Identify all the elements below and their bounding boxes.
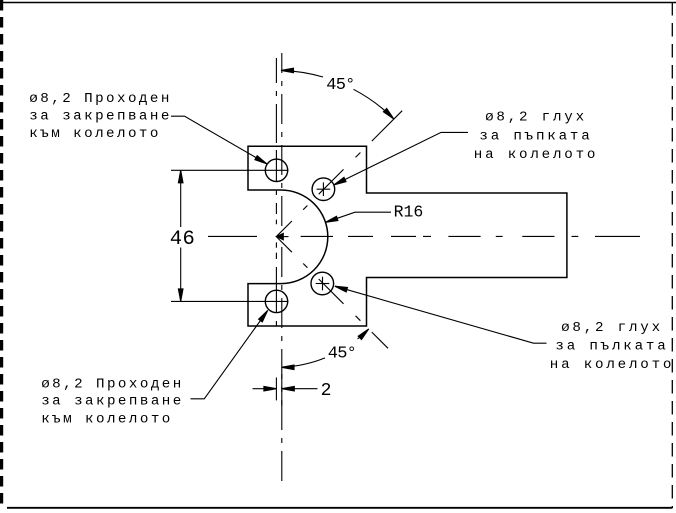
svg-text:45°: 45° bbox=[326, 76, 354, 95]
angular dim top arrow at ray bbox=[383, 109, 394, 120]
frame top border bbox=[0, 2, 676, 4]
svg-text:ø8,2 глух: ø8,2 глух bbox=[561, 320, 663, 336]
blind hole bottom-right center cross bbox=[316, 277, 330, 291]
dimension 46 arrow down bbox=[178, 289, 183, 302]
dimension 2 arrow pointing right bbox=[264, 386, 277, 391]
blind hole bottom-right bbox=[311, 272, 334, 295]
svg-text:R16: R16 bbox=[394, 202, 424, 221]
svg-text:ø8,2 глух: ø8,2 глух bbox=[485, 110, 587, 126]
vertical part centerline solid at dim 2 bbox=[281, 374, 283, 406]
leader top-right arrowhead bbox=[334, 177, 346, 185]
leader top-right hole bbox=[334, 132, 468, 185]
R16 leader arrow bbox=[325, 216, 338, 222]
leader bottom-right arrowhead bbox=[335, 286, 348, 292]
vertical hole-axis extension at dim 2 bbox=[275, 378, 277, 401]
svg-text:за закрепване: за закрепване bbox=[41, 393, 184, 409]
horizontal centerline bbox=[208, 235, 640, 237]
blind hole top-right bbox=[312, 178, 335, 201]
svg-text:на колелото: на колелото bbox=[474, 147, 598, 163]
vertical part centerline bbox=[281, 53, 283, 486]
part outline with R16 notch and right tab bbox=[248, 146, 567, 326]
svg-text:ø8,2 Проходен: ø8,2 Проходен bbox=[29, 91, 172, 107]
leader bottom-right hole bbox=[335, 286, 547, 343]
svg-text:за пълката: за пълката bbox=[555, 339, 668, 355]
leader bottom-left arrowhead bbox=[259, 310, 268, 322]
svg-text:към колелото: към колелото bbox=[41, 411, 173, 427]
45-degree dash-dot ray up-right through blind hole bbox=[277, 111, 403, 237]
leader bottom-left hole bbox=[191, 310, 268, 398]
svg-text:за пъпката: за пъпката bbox=[479, 129, 592, 145]
dimension 46 line upper segment bbox=[180, 170, 182, 227]
svg-text:2: 2 bbox=[321, 381, 332, 401]
leader top-left hole bbox=[171, 116, 267, 164]
top-left hole horizontal centerline / dim 46 extension bbox=[171, 169, 289, 171]
45-degree dash-dot ray down-right through blind hole bbox=[277, 237, 388, 348]
angular dimension arc bottom bbox=[282, 329, 369, 367]
through hole top-left bbox=[265, 159, 287, 181]
svg-text:ø8,2 Проходен: ø8,2 Проходен bbox=[41, 377, 184, 393]
leader top-left arrowhead bbox=[255, 156, 267, 164]
frame right dashed border bbox=[671, 2, 673, 508]
bottom-left hole horizontal centerline / dim 46 extension bbox=[171, 300, 289, 302]
svg-text:на колелото: на колелото bbox=[550, 357, 674, 373]
dimension 2 left tail line bbox=[253, 388, 265, 390]
svg-text:към колелото: към колелото bbox=[29, 126, 161, 142]
through hole bottom-left bbox=[265, 290, 287, 312]
dimension 46 arrow up bbox=[178, 170, 183, 183]
angular dimension arc top bbox=[281, 70, 394, 119]
frame left dashed border bbox=[0, 0, 3, 505]
angular dim bottom arrow at centerline bbox=[282, 365, 295, 370]
svg-text:45°: 45° bbox=[328, 344, 356, 363]
dimension 2 right line bbox=[282, 388, 318, 390]
angular dim top arrow at centerline bbox=[281, 68, 294, 73]
blind hole top-right center cross bbox=[317, 182, 331, 196]
angular dim bottom arrow at ray bbox=[358, 329, 369, 340]
frame bottom border bbox=[7, 507, 673, 509]
svg-text:46: 46 bbox=[170, 228, 195, 251]
dimension 2 arrow pointing left bbox=[282, 386, 295, 391]
vertical hole-axis centerline bbox=[275, 58, 277, 326]
svg-text:за закрепване: за закрепване bbox=[29, 109, 172, 125]
arrow tip at part center with horizontal tail dash bbox=[276, 233, 288, 239]
dimension 46 line lower segment bbox=[180, 248, 182, 302]
R16 leader bbox=[327, 212, 391, 222]
